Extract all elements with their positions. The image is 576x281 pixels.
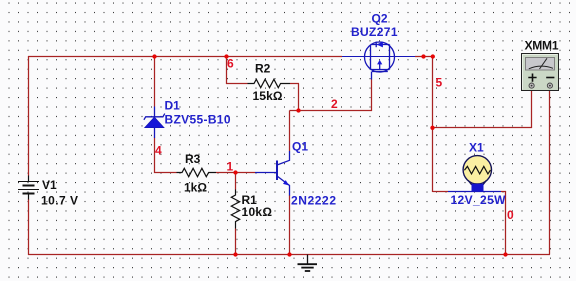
svg-text:1kΩ: 1kΩ xyxy=(184,181,207,195)
wire to lamp left lead xyxy=(433,191,449,193)
wire node 5 to XMM1 plus terminal xyxy=(433,90,533,128)
svg-text:1: 1 xyxy=(227,160,234,174)
junction node 6 xyxy=(224,54,228,58)
svg-text:Q1: Q1 xyxy=(292,140,308,154)
wire node 2 up to Q2 gate xyxy=(371,80,373,112)
wire lamp right lead to node 0 xyxy=(501,191,506,255)
transistor Q1 xyxy=(255,151,290,196)
svg-text:2N2222: 2N2222 xyxy=(291,194,336,208)
junction Q1 emitter at rail xyxy=(287,252,291,256)
ground xyxy=(298,255,318,272)
svg-text:X1: X1 xyxy=(469,141,484,155)
svg-text:10.7 V: 10.7 V xyxy=(41,194,78,208)
wire bottom ground rail xyxy=(28,254,550,256)
junction lamp at rail node 0 xyxy=(503,252,507,256)
svg-text:10kΩ: 10kΩ xyxy=(242,205,273,219)
wire Q2 source to node 5 corner xyxy=(415,56,433,58)
wire R1 bottom to rail xyxy=(235,229,237,255)
junction Q2 source pin xyxy=(421,54,425,58)
wire R2 right corner xyxy=(290,84,299,111)
battery V1 xyxy=(18,176,39,200)
junction node 1 xyxy=(233,170,237,174)
svg-text:Q2: Q2 xyxy=(372,12,388,26)
svg-text:0: 0 xyxy=(507,208,514,222)
svg-text:R2: R2 xyxy=(255,62,271,76)
svg-text:D1: D1 xyxy=(165,99,181,113)
svg-text:2: 2 xyxy=(331,97,338,111)
junction R1 at rail xyxy=(233,252,237,256)
resistor R2 xyxy=(248,79,291,87)
svg-text:5: 5 xyxy=(436,76,443,90)
wire node 6 branch down xyxy=(226,56,228,84)
multimeter XMM1 xyxy=(522,54,559,91)
resistor R1 xyxy=(231,190,239,229)
svg-text:15kΩ: 15kΩ xyxy=(253,89,283,103)
junction on rail at D1 xyxy=(152,54,156,58)
wire node 2 horizontal xyxy=(290,110,373,112)
wire Q1 emitter to rail xyxy=(289,195,291,255)
wire R3 to node 1 xyxy=(216,172,255,174)
wire node 2 down to Q1 collector xyxy=(289,111,291,152)
junction node 5 to XMM1 xyxy=(430,126,434,130)
wire node 6 horizontal to R2 xyxy=(226,83,248,85)
lamp X1 xyxy=(448,156,501,192)
wire right vertical XMM1 minus xyxy=(549,90,551,255)
junction node 2 xyxy=(296,108,300,112)
resistor R3 xyxy=(177,168,217,176)
svg-text:R3: R3 xyxy=(185,152,201,166)
wire D1 cathode to rail xyxy=(154,56,156,107)
wire node 1 down to R1 xyxy=(235,173,237,190)
junction node 5 corner xyxy=(431,54,435,58)
wire top rail net V1+ xyxy=(28,56,342,58)
zener diode D1 xyxy=(144,107,165,139)
wire node 5 vertical xyxy=(432,57,434,193)
svg-text:XMM1: XMM1 xyxy=(525,39,559,53)
wire battery bottom to rail xyxy=(28,199,30,255)
svg-text:6: 6 xyxy=(227,57,234,71)
svg-text:BUZ271: BUZ271 xyxy=(351,25,398,39)
svg-text:4: 4 xyxy=(155,144,162,158)
wire node 4 horizontal to R3 xyxy=(154,172,177,174)
svg-text:BZV55-B10: BZV55-B10 xyxy=(165,113,231,127)
svg-text:V1: V1 xyxy=(42,178,57,192)
mosfet Q2 xyxy=(342,42,415,80)
wire left vertical to battery top xyxy=(28,56,30,176)
svg-text:12V_25W: 12V_25W xyxy=(451,193,507,207)
wire D1 anode down to node 4 corner xyxy=(154,138,156,173)
